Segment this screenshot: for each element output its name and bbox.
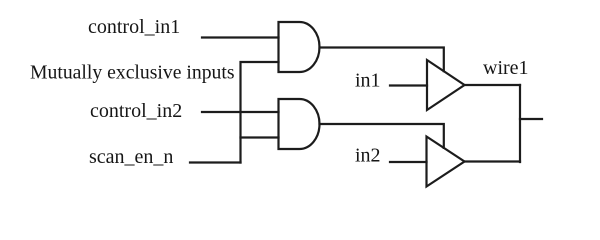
svg-text:in2: in2 xyxy=(355,145,381,167)
wire AND U2 output to buffer U4 enable xyxy=(320,124,444,148)
svg-text:control_in2: control_in2 xyxy=(90,100,182,122)
wire in2 to buffer U4 input xyxy=(390,161,427,163)
svg-text:control_in1: control_in1 xyxy=(88,16,180,38)
wire AND U1 output to buffer U3 enable xyxy=(320,48,444,72)
wire net wire1 vertical xyxy=(519,85,521,162)
wire output stub from wire1 xyxy=(520,118,542,120)
wire in1 to buffer U3 input xyxy=(390,84,427,86)
svg-text:scan_en_n: scan_en_n xyxy=(89,146,173,168)
and-gate U2 xyxy=(279,99,320,149)
wire branch scan net to AND U2 bottom input xyxy=(241,136,279,138)
wire control_in1 to AND gate U1 top input xyxy=(202,36,279,38)
wire scan_en_n stub xyxy=(190,161,241,163)
wire scan_en_n vertical net to AND U1 bottom input xyxy=(241,62,279,163)
wire control_in2 to AND gate U2 top input xyxy=(202,111,279,113)
svg-text:Mutually exclusive inputs: Mutually exclusive inputs xyxy=(30,62,235,84)
svg-text:in1: in1 xyxy=(355,70,381,92)
wire buffer U4 output to net wire1 xyxy=(465,160,521,162)
buffer U4 (tri-state) xyxy=(427,137,465,187)
wire buffer U3 output to net wire1 xyxy=(465,84,521,86)
buffer U3 (tri-state) xyxy=(427,60,465,110)
and-gate U1 xyxy=(279,22,320,72)
svg-text:wire1: wire1 xyxy=(483,57,529,79)
